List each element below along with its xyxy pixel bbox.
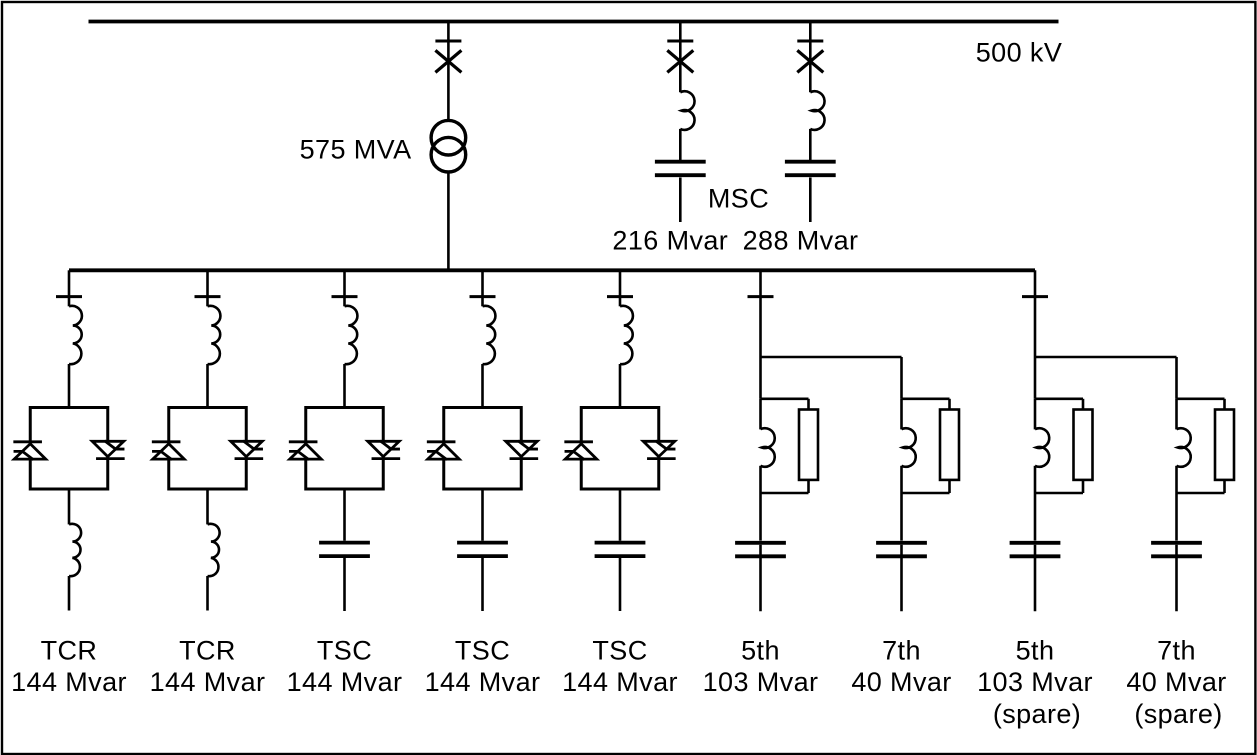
svg-text:TSC: TSC [317, 636, 372, 666]
svg-text:TCR: TCR [41, 636, 98, 666]
svg-text:40 Mvar: 40 Mvar [851, 667, 951, 697]
svg-text:TSC: TSC [455, 636, 510, 666]
svg-text:144 Mvar: 144 Mvar [287, 667, 403, 697]
svg-text:288 Mvar: 288 Mvar [743, 226, 859, 256]
svg-text:144 Mvar: 144 Mvar [11, 667, 127, 697]
svg-text:7th: 7th [882, 636, 921, 666]
svg-text:144 Mvar: 144 Mvar [150, 667, 266, 697]
svg-text:(spare): (spare) [993, 699, 1081, 729]
svg-text:MSC: MSC [708, 184, 769, 214]
svg-text:(spare): (spare) [1134, 699, 1222, 729]
svg-text:103 Mvar: 103 Mvar [977, 667, 1093, 697]
svg-text:144 Mvar: 144 Mvar [425, 667, 541, 697]
svg-text:216 Mvar: 216 Mvar [612, 226, 728, 256]
svg-text:575 MVA: 575 MVA [300, 134, 412, 164]
svg-text:144 Mvar: 144 Mvar [562, 667, 678, 697]
svg-text:40 Mvar: 40 Mvar [1126, 667, 1226, 697]
svg-text:103 Mvar: 103 Mvar [703, 667, 819, 697]
svg-text:5th: 5th [741, 636, 780, 666]
svg-text:500 kV: 500 kV [976, 38, 1062, 68]
svg-text:TSC: TSC [592, 636, 647, 666]
svg-text:5th: 5th [1016, 636, 1055, 666]
svg-text:TCR: TCR [179, 636, 236, 666]
svg-text:7th: 7th [1157, 636, 1196, 666]
